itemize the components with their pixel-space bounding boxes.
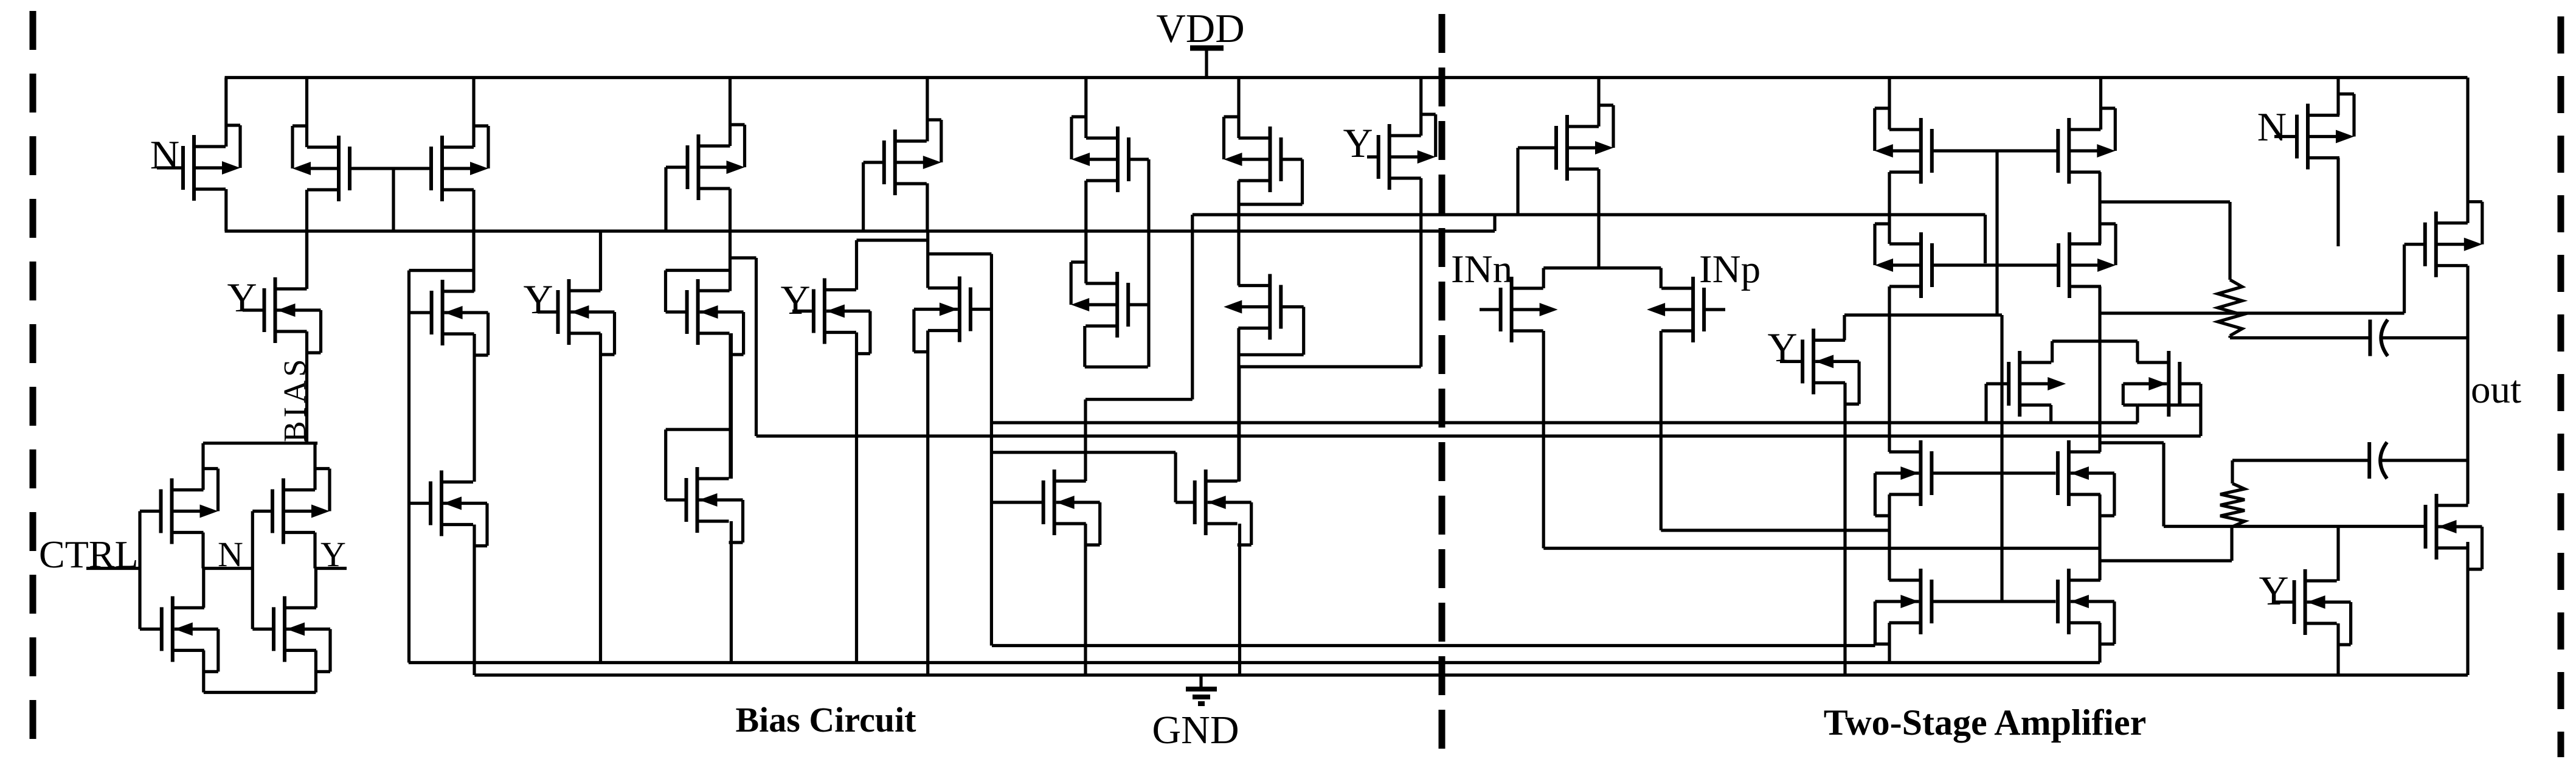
cascode gate column V2 — [2000, 315, 2003, 601]
M9 drain wire — [305, 231, 308, 289]
mirror MR — [2123, 351, 2180, 417]
mirror bar — [2052, 339, 2138, 342]
M25-M26-stack column — [2098, 172, 2101, 244]
M2 source wire — [305, 190, 308, 289]
INn top wire — [1542, 268, 1545, 288]
wire W4 — [1543, 547, 2100, 550]
M18 gate wrap across — [666, 428, 730, 431]
M18 drain wire — [729, 334, 732, 479]
node Y wire — [315, 567, 347, 570]
M6 drain wire — [1237, 78, 1240, 139]
source follower M31 — [2274, 94, 2354, 170]
VDD terminal — [1190, 46, 1224, 51]
M14 gate lead — [970, 308, 991, 311]
svg-text:Y: Y — [2259, 567, 2288, 614]
bias rail2 — [225, 229, 1495, 232]
M13 source column — [855, 333, 858, 663]
rail A — [409, 661, 2100, 664]
gate drop to rail2 — [392, 168, 395, 231]
M14 source column — [926, 331, 929, 676]
M12 gate wrap across — [666, 269, 730, 272]
M20 source column — [1238, 524, 1241, 675]
P2 gate lead — [252, 510, 272, 513]
M33 source wire — [2336, 623, 2339, 675]
rail R1 — [992, 421, 2138, 424]
M32 gate drop — [2403, 244, 2406, 313]
P1 drain wire — [201, 443, 204, 490]
amp tail M21 — [1518, 105, 1613, 181]
wire 518 to gate column — [1844, 313, 2002, 316]
M18 source column — [730, 521, 733, 663]
M16 gate lead — [1280, 305, 1304, 308]
svg-text:INn: INn — [1451, 248, 1512, 291]
rail R2 — [757, 434, 2201, 437]
M32 drain wire from VDD rail — [2466, 78, 2469, 223]
W7 drop column — [2162, 443, 2165, 527]
M2-M3 gate net — [350, 167, 431, 170]
M12 source column — [730, 333, 733, 479]
MR gate lead — [2180, 382, 2201, 385]
wire W352 — [1193, 213, 1986, 216]
resistor R1 top lead — [2228, 202, 2231, 280]
M6 gate wrap down — [1301, 159, 1304, 204]
M27 gate net — [1932, 471, 2056, 474]
W352 drop column — [1984, 215, 1987, 263]
dashed boundary right — [2558, 16, 2564, 757]
cascode bias M22 — [1780, 328, 1859, 404]
M5 gate lead — [1128, 158, 1149, 161]
rail2 to W352 strap — [1493, 213, 1496, 231]
INn drain column — [1542, 331, 1545, 549]
M16 gate wrap down — [1302, 307, 1305, 355]
INp drain column — [1660, 331, 1663, 530]
M16 source column — [1237, 328, 1240, 482]
M1 drain wire — [224, 78, 227, 147]
resistor R1 — [2218, 280, 2242, 336]
transistor M19 — [992, 470, 1100, 545]
INp top wire — [1660, 268, 1663, 288]
diff pair top bar — [1543, 266, 1661, 269]
dashed boundary left — [30, 11, 36, 757]
MR source drop — [2136, 405, 2139, 423]
M12 gate wrap up — [664, 271, 667, 313]
M8 source column — [1419, 178, 1422, 367]
M15 source wrap across — [1085, 366, 1148, 369]
M19 drain column — [1084, 400, 1087, 481]
inverter ground rail — [204, 691, 316, 694]
svg-text:N: N — [2257, 105, 2287, 150]
transistor M2 — [293, 126, 350, 201]
M17 source column — [473, 525, 476, 676]
transistor M15 — [1071, 262, 1128, 338]
N1 drain wire — [202, 569, 205, 608]
output sink M33 — [2274, 569, 2351, 645]
wire W2 — [1661, 529, 1889, 532]
input pair INn — [1480, 277, 1558, 342]
M21 source column — [1597, 169, 1600, 268]
M24-M26 gate net — [1933, 263, 2058, 266]
M14 gate column — [990, 254, 993, 646]
output column lower — [2466, 542, 2469, 675]
out sink M30 — [2058, 569, 2114, 644]
MR drain wire — [2136, 341, 2139, 362]
VDD rail — [225, 76, 2468, 79]
CTRL input wire — [86, 567, 140, 570]
M15 gate lead — [1127, 303, 1149, 306]
out cascode M27 — [1875, 440, 1931, 516]
M21 drain wire — [1597, 78, 1600, 127]
input pair INp — [1647, 277, 1725, 342]
M22 drain wire — [1843, 315, 1846, 340]
M2 drain wire — [305, 78, 308, 148]
transistor M18 — [666, 467, 743, 542]
svg-text:BIAS: BIAS — [278, 356, 313, 442]
out clamp M34 — [2425, 494, 2482, 569]
wire W557 left — [2230, 336, 2370, 339]
wire rail2 to gate column — [928, 252, 992, 255]
GND symbol — [1186, 689, 1217, 704]
M5 source wire — [1084, 181, 1087, 283]
wire W515 — [2100, 311, 2405, 314]
M23-M24 column — [1888, 172, 1891, 244]
wire W5 — [2100, 559, 2232, 562]
M8 drain wire — [1419, 78, 1422, 136]
transistor M14 — [914, 277, 971, 352]
M11 source column — [599, 333, 602, 663]
N2 source wire — [314, 650, 317, 692]
wire W330 to resistor — [2100, 200, 2230, 203]
transistor M5 — [1072, 117, 1129, 192]
M20 drain from M16 — [1238, 368, 1241, 481]
M29 gate net — [1932, 600, 2056, 603]
inverter P1 — [161, 469, 218, 544]
M7 drain wire — [926, 78, 929, 142]
amp M25 — [2058, 108, 2115, 184]
M5 drain wire — [1084, 78, 1087, 139]
svg-text:out: out — [2471, 368, 2521, 412]
branch column to R2 rail — [755, 258, 758, 436]
M10 gate column — [407, 271, 410, 663]
transistor M20 — [1175, 470, 1252, 545]
N1 source wire — [202, 650, 205, 692]
M26 source column down to mirror bar — [2098, 286, 2101, 452]
W5 rise column — [2230, 527, 2233, 561]
M14 drain wire — [926, 231, 929, 288]
M13 drain jog — [857, 238, 928, 241]
M5 gate column — [1147, 159, 1150, 367]
M16 gate wrap across — [1239, 353, 1304, 356]
inverter2 input column — [251, 511, 254, 629]
M30 source wire — [2098, 623, 2101, 663]
M21 gate column to W352 — [1516, 148, 1519, 215]
transistor M11 — [538, 279, 615, 355]
M25 drain wire — [2099, 78, 2102, 130]
rail C — [992, 644, 1875, 647]
M19 source column — [1084, 524, 1087, 675]
transistor M1 — [157, 125, 240, 201]
transistor M3 — [431, 126, 488, 201]
svg-text:Y: Y — [780, 277, 810, 323]
M6 gate wrap across — [1239, 203, 1303, 206]
GND stub — [1199, 675, 1202, 688]
N2 gate lead — [252, 628, 274, 631]
M28 source column — [2098, 494, 2101, 580]
transistor M7 — [864, 120, 941, 195]
M23 M25 gate net — [1932, 149, 2058, 152]
M11 drain wire — [599, 231, 602, 291]
out sink M29 — [1875, 569, 1931, 644]
inverter P2 — [272, 469, 330, 544]
M15 source wrap down — [1083, 326, 1086, 367]
M7 source wire — [926, 183, 929, 231]
amp M23 — [1875, 108, 1932, 184]
svg-text:GND: GND — [1152, 708, 1239, 752]
M29 source wire — [1888, 623, 1891, 663]
svg-text:VDD: VDD — [1156, 6, 1244, 51]
node N wire — [203, 567, 252, 570]
mirror ML gate column to R1 — [1984, 384, 1987, 423]
gate column V1 — [1995, 151, 1998, 315]
cascode M26 — [2058, 224, 2116, 298]
transistor M17 — [409, 471, 488, 546]
column 1960 from W352 — [1191, 215, 1194, 400]
M31 drain wire — [2336, 78, 2339, 116]
capacitor C2 — [2367, 442, 2371, 479]
wire W1 right — [2380, 459, 2468, 462]
resistor R1 bottom lead — [2228, 336, 2231, 338]
MR gate column to R2 end — [2199, 384, 2202, 436]
M27 source column — [1888, 494, 1891, 580]
MR bottom stub — [2169, 403, 2201, 406]
transistor M8 — [1367, 114, 1436, 190]
P2 source wire — [313, 533, 316, 569]
M7 gate column — [862, 162, 865, 231]
M22 source column — [1843, 383, 1846, 675]
capacitor C1 — [2368, 320, 2372, 356]
M3 drain wire — [472, 78, 475, 148]
resistor R2 — [2220, 483, 2245, 527]
M1 source wire — [224, 189, 227, 231]
M6 source column — [1237, 181, 1240, 286]
M23 drain wire — [1888, 78, 1891, 130]
transistor M13 — [792, 279, 870, 354]
P2 drain wire — [313, 443, 316, 490]
svg-text:N: N — [150, 133, 179, 178]
N1 gate lead — [140, 628, 162, 631]
P1 source wire — [201, 533, 204, 569]
svg-text:Bias Circuit: Bias Circuit — [736, 700, 917, 740]
wire W1 left — [2232, 459, 2369, 462]
out cascode M28 — [2058, 440, 2114, 516]
inverter N1 — [162, 596, 218, 671]
wire W6 — [1239, 365, 1421, 368]
svg-text:Two-Stage Amplifier: Two-Stage Amplifier — [1824, 702, 2146, 743]
M10 gate wrap — [409, 269, 474, 272]
M29 tie to rail C — [1874, 601, 1877, 646]
mirror ML — [1986, 351, 2066, 417]
transistor M10 diode — [409, 280, 488, 355]
M6 gate lead — [1280, 158, 1303, 161]
transistor M9 — [243, 277, 321, 353]
svg-text:Y: Y — [1767, 324, 1797, 370]
wire W657 — [1085, 398, 1193, 401]
BIAS column — [305, 331, 308, 443]
ML source wire — [2049, 405, 2052, 423]
inverter1 input column — [138, 511, 141, 629]
branch jog wire — [730, 256, 757, 259]
M31 source dangling wire — [2336, 158, 2339, 247]
M18 gate wrap up — [664, 429, 667, 500]
M24 source column — [1888, 286, 1891, 452]
M4 source wire — [729, 189, 732, 291]
M20 gate drop column — [1174, 452, 1177, 502]
M4 drain wire — [729, 78, 732, 147]
inverter N2 — [274, 596, 330, 671]
svg-text:INp: INp — [1699, 248, 1761, 291]
P1 gate lead — [140, 510, 161, 513]
output column upper — [2466, 266, 2469, 504]
M33 drain wire — [2336, 527, 2339, 581]
wire W2b — [2164, 525, 2425, 528]
svg-text:Y: Y — [227, 274, 257, 321]
ML drain wire — [2051, 341, 2054, 362]
transistor M12 diode — [666, 279, 744, 355]
M4 gate drop — [664, 167, 667, 231]
svg-text:Y: Y — [1343, 120, 1373, 166]
N2 drain wire — [314, 569, 317, 608]
wire W557 right — [2380, 336, 2468, 339]
wire W7 — [2100, 441, 2164, 444]
rail B ground — [474, 673, 2468, 676]
M10 source column — [473, 334, 476, 482]
M13 drain wire — [855, 240, 858, 290]
svg-text:Y: Y — [523, 276, 553, 322]
dashed separator middle — [1439, 14, 1446, 759]
M3 source wire — [472, 190, 475, 292]
cascode M24 — [1875, 224, 1932, 298]
transistor M4 — [666, 125, 745, 200]
resistor R2 top lead — [2231, 460, 2234, 483]
transistor M6 diode — [1224, 117, 1281, 192]
output M32 — [2405, 202, 2482, 277]
BIAS to inverter rail — [203, 442, 317, 445]
wire rail2-row to M19/M20 gates — [992, 451, 1175, 454]
transistor M16 — [1224, 274, 1281, 340]
